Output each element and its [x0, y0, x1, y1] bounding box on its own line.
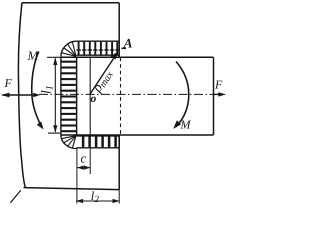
weld bottom band top edge (on bracket bottom edge)	[77, 135, 120, 137]
l2 dimension line	[76, 200, 120, 202]
point A tick	[121, 48, 126, 50]
arrowhead moment arc right	[173, 120, 181, 128]
arrowhead moment arc left	[37, 122, 44, 130]
weld left band rungs	[61, 62, 76, 132]
weld bottom band right end	[118, 135, 120, 149]
arrowhead at column edge on F line	[33, 93, 40, 97]
weld bottom band hatch	[83, 137, 116, 148]
l1 dimension line	[54, 59, 56, 133]
arrowhead l2 left	[76, 199, 83, 203]
svg-text:F: F	[214, 78, 223, 92]
centroid line through o	[89, 57, 91, 135]
bracket left edge extension for c and l2	[76, 149, 78, 204]
weld corner fan bottom-left	[61, 136, 76, 149]
svg-text:M: M	[180, 118, 192, 132]
centroid line extension to c dimension	[89, 149, 91, 175]
arrowhead c right	[84, 166, 90, 170]
svg-text:o: o	[91, 93, 97, 105]
column plate top edge	[22, 2, 119, 4]
column plate bottom edge	[24, 188, 120, 190]
arrowhead F right	[218, 92, 226, 96]
column plate right edge upper segment	[118, 3, 120, 57]
arrowhead l1 bottom	[53, 125, 57, 133]
weld top band bottom edge	[77, 54, 120, 56]
weld top band top edge	[77, 40, 120, 42]
weld corner fan top-left	[62, 42, 76, 56]
weld corner arc bottom-left	[61, 135, 77, 149]
column right edge extension for l2	[118, 190, 120, 204]
l1 top extension tick	[47, 56, 60, 58]
weld left band outer edge	[60, 57, 62, 135]
c dimension line	[77, 167, 89, 169]
svg-text:c: c	[81, 151, 87, 166]
svg-text:F: F	[4, 76, 13, 90]
arrowhead l2 right	[113, 199, 120, 203]
column plate right edge lower segment	[118, 135, 120, 190]
moment arc left (M)	[32, 52, 42, 127]
l1 bottom extension tick	[48, 132, 60, 134]
svg-text:M: M	[27, 48, 40, 63]
bracket plate outline	[61, 57, 214, 135]
column plate left edge (freehand)	[18, 3, 25, 187]
horizontal centerline (dash-dot)	[39, 93, 214, 95]
column hidden edge behind bracket (dashed)	[120, 58, 122, 136]
moment arc right (M)	[176, 62, 189, 127]
column plate left edge overshoot	[10, 190, 20, 203]
force F arrow left	[3, 94, 35, 96]
arrowhead c left	[77, 166, 83, 170]
rho max arrow line	[90, 56, 115, 94]
weld top band hatch	[79, 42, 118, 55]
svg-text:A: A	[123, 36, 133, 51]
arrowhead l1 top	[53, 57, 57, 65]
force F arrow right	[214, 93, 220, 95]
weld corner arc top-left	[61, 41, 77, 57]
arrowhead rho max	[111, 52, 119, 60]
weld bottom band bottom edge	[77, 147, 120, 149]
arrowhead F left	[1, 93, 10, 98]
weld top band hatch ticks	[76, 49, 118, 51]
